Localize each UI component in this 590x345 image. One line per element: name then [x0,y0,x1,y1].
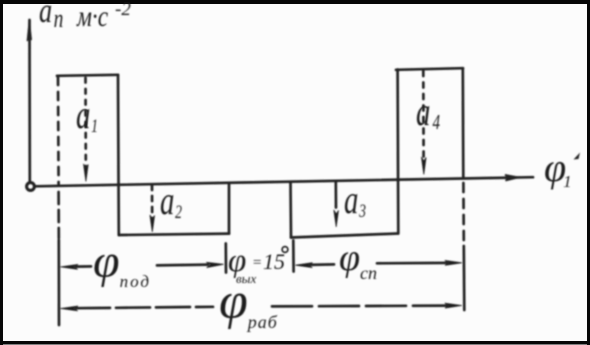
x-axis [35,177,533,186]
border frame right [587,0,590,345]
dim line phi_sp right segment [377,262,448,265]
dim line phi_pod [76,265,91,268]
pulse a2: bottom edge [119,234,229,235]
extension line right (below axis, x=464) [462,183,465,244]
dim line phi_rab right segment [272,304,448,307]
svg-text:-2: -2 [115,0,131,20]
y-axis line [28,20,31,182]
dim tick phi_vyh left [224,244,227,273]
svg-text:ап: ап [39,0,63,33]
pulse a3: left edge from axis down [289,182,292,237]
dim line phi_rab left segment [76,307,213,308]
pulse a4: right edge down to axis [461,68,464,177]
a4 measuring dashed arrow [422,71,425,160]
pulse a1: left dashed edge [57,77,60,184]
degree tick of phi_1 [574,153,581,160]
pulse a4: top edge [396,68,463,70]
arrow left of phi_rab [61,306,79,311]
pulse a1: top edge [57,75,118,76]
border frame top [0,0,590,4]
x-axis arrowhead [505,175,519,181]
svg-text:15: 15 [263,249,285,274]
border frame bottom [0,341,590,345]
svg-text:м·с: м·с [76,0,108,33]
pulse a2: right edge up to axis [228,183,231,233]
y-axis arrowhead [27,20,31,41]
a1 measuring dashed arrow [84,78,87,168]
pulse a3: bottom edge [291,234,398,238]
svg-text:=: = [252,255,262,271]
dim line phi_sp left segment [309,263,334,266]
arrow left of phi_pod [61,264,79,269]
extension line left (below axis, x=58.5) [57,192,60,238]
a3 measuring arrow [334,182,337,213]
arrow right of phi_sp [445,260,462,265]
border frame left [0,0,3,345]
a2 measuring dashed arrow [151,185,154,220]
arrow left of phi_sp [296,263,313,268]
pulse a1: right edge down to pulse a2 bottom [117,75,121,235]
origin circle [27,183,35,191]
dim tick phi_vyh right [292,241,295,272]
pulse a3 right edge rising to pulse a4 top (tall vertical) [396,70,399,234]
arrow right of phi_rab [445,303,462,308]
arrow right of phi_pod [206,262,223,267]
